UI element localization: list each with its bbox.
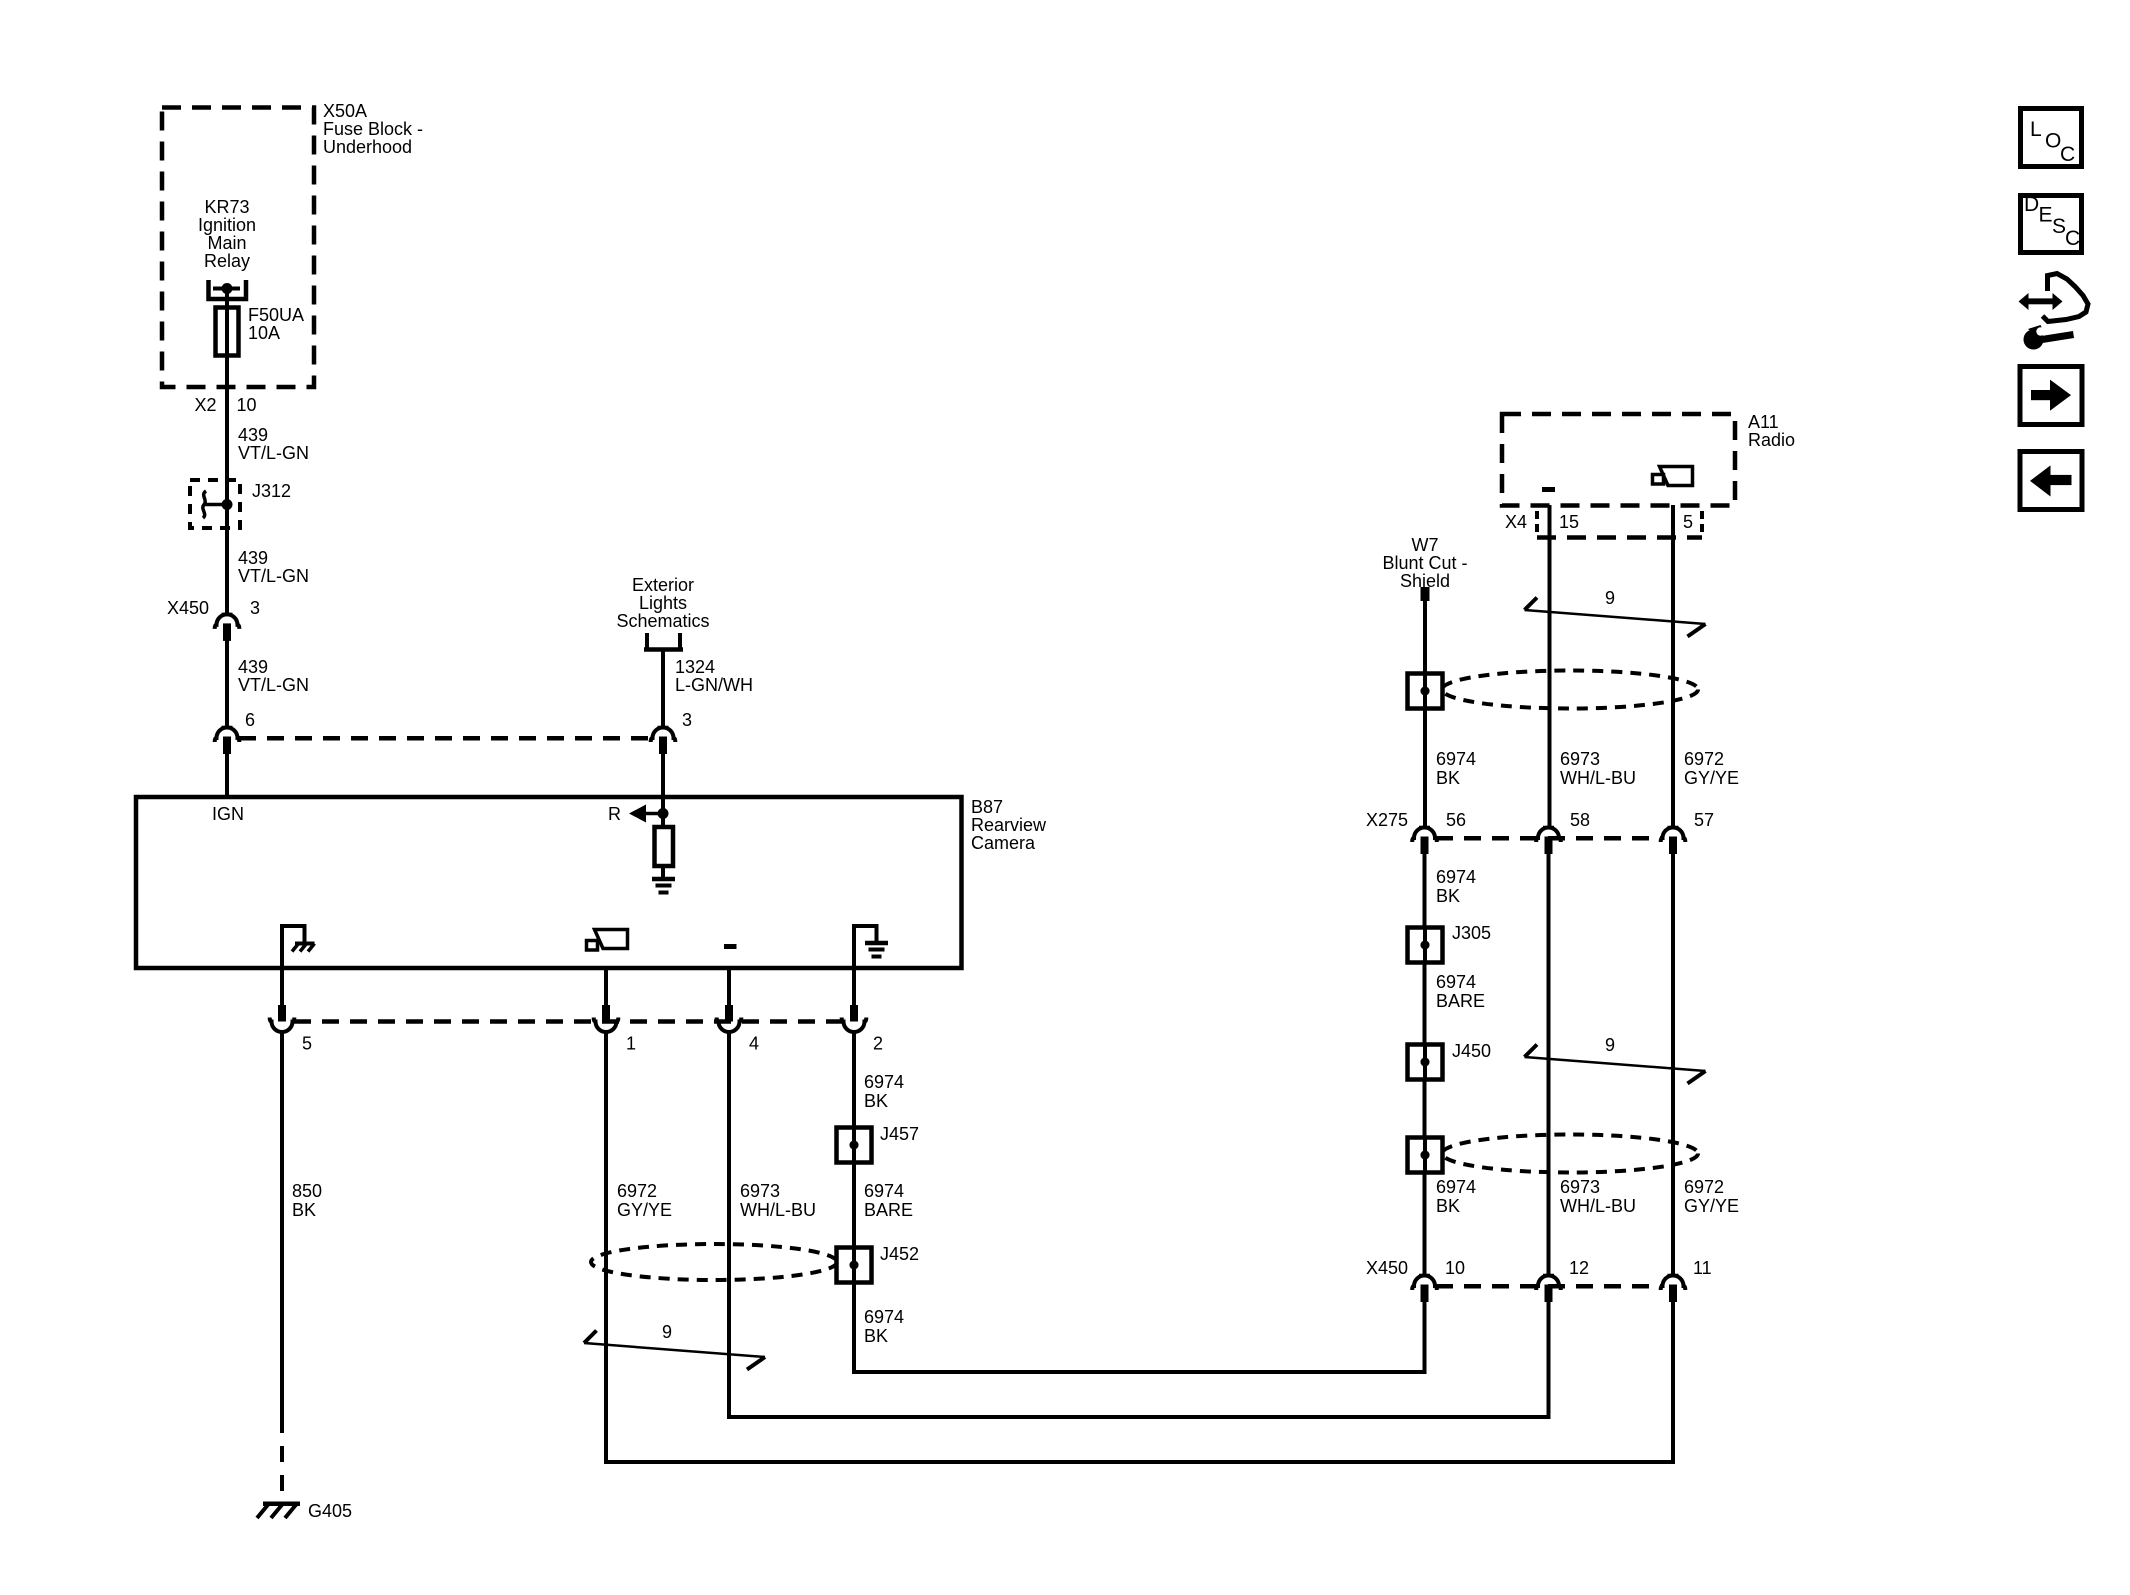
splice J305 <box>1408 923 1492 963</box>
pin number 6 <box>245 710 255 730</box>
svg-text:10: 10 <box>237 395 257 415</box>
twisted pair indicator 9 (bottom) <box>584 1322 765 1370</box>
next (right arrow) button <box>2020 367 2082 425</box>
svg-text:BK: BK <box>1436 1196 1460 1216</box>
camera icon pin 1 <box>587 930 628 951</box>
svg-text:WH/L-BU: WH/L-BU <box>1560 768 1636 788</box>
svg-text:BK: BK <box>1436 768 1460 788</box>
wire labels 6972 GY/YE, 6973 WH/L-BU, 6974 BARE <box>617 1181 913 1220</box>
svg-text:GY/YE: GY/YE <box>1684 1196 1739 1216</box>
svg-text:Fuse Block -: Fuse Block - <box>323 119 423 139</box>
shield ellipse (middle) <box>1442 1135 1698 1173</box>
svg-text:G405: G405 <box>308 1501 352 1521</box>
svg-text:W7: W7 <box>1412 535 1439 555</box>
svg-text:C: C <box>2065 227 2080 250</box>
svg-text:F50UA: F50UA <box>248 305 304 325</box>
svg-text:B87: B87 <box>971 797 1003 817</box>
twisted pair indicator 9 (top right) <box>1525 588 1706 637</box>
svg-text:J452: J452 <box>880 1244 919 1264</box>
connector label X2 pin 10 <box>194 395 256 415</box>
X4 connector row <box>1537 511 1702 538</box>
camera icon inside radio <box>1653 467 1693 486</box>
resistor inside camera <box>655 827 674 878</box>
svg-text:6974: 6974 <box>864 1307 904 1327</box>
svg-text:6974: 6974 <box>864 1181 904 1201</box>
svg-text:GY/YE: GY/YE <box>617 1200 672 1220</box>
connector X450-3 <box>215 614 240 641</box>
labels X275 56 58 57 <box>1366 810 1714 830</box>
svg-text:VT/L-GN: VT/L-GN <box>238 566 309 586</box>
svg-text:BK: BK <box>864 1091 888 1111</box>
wire from relay through fuse to X450 pin 3 <box>225 289 229 614</box>
svg-text:Radio: Radio <box>1748 430 1795 450</box>
wire into camera R <box>661 753 665 799</box>
R input junction with arrow <box>608 799 669 827</box>
svg-text:VT/L-GN: VT/L-GN <box>238 675 309 695</box>
svg-text:5: 5 <box>1683 512 1693 532</box>
svg-text:6974: 6974 <box>1436 867 1476 887</box>
labels X4 15 5 <box>1505 512 1693 532</box>
labels X450 10 12 11 <box>1366 1258 1712 1278</box>
wire 6974 camera pin 2 to X450-10 <box>854 1032 1425 1372</box>
svg-text:X2: X2 <box>194 395 216 415</box>
svg-text:E: E <box>2039 204 2053 227</box>
svg-text:Camera: Camera <box>971 833 1036 853</box>
svg-text:6974: 6974 <box>1436 972 1476 992</box>
wire label 6974 BK (pin 2) <box>864 1072 904 1111</box>
wire label 1324 L-GN/WH <box>675 657 753 695</box>
svg-text:9: 9 <box>1605 588 1615 608</box>
wire labels 6974 BK, 6973 WH/L-BU, 6972 GY/YE (above X450) <box>1436 1177 1739 1216</box>
label KR73 Ignition Main Relay <box>198 197 256 271</box>
connector row below camera <box>270 1005 867 1032</box>
connector camera pin 6 <box>215 728 240 755</box>
svg-text:12: 12 <box>1569 1258 1589 1278</box>
wire labels 6974 BK, 6973 WH/L-BU, 6972 GY/YE (above X275) <box>1436 749 1739 788</box>
svg-text:6973: 6973 <box>740 1181 780 1201</box>
svg-text:6973: 6973 <box>1560 1177 1600 1197</box>
shield ellipse (top) <box>1442 671 1698 709</box>
svg-text:6972: 6972 <box>1684 749 1724 769</box>
shield connection box (middle) <box>1408 1138 1443 1173</box>
ground G405 <box>257 1501 352 1521</box>
svg-text:KR73: KR73 <box>204 197 249 217</box>
svg-text:O: O <box>2045 130 2061 153</box>
twisted pair indicator 9 (middle right) <box>1525 1035 1706 1084</box>
minus symbol pin 4 <box>724 944 737 949</box>
relay KR73 contact symbol <box>209 280 247 299</box>
svg-text:WH/L-BU: WH/L-BU <box>740 1200 816 1220</box>
svg-text:439: 439 <box>238 657 268 677</box>
svg-text:4: 4 <box>749 1034 759 1054</box>
svg-text:10A: 10A <box>248 323 280 343</box>
label W7 Blunt Cut - Shield <box>1382 535 1467 591</box>
svg-text:1: 1 <box>626 1034 636 1054</box>
svg-text:439: 439 <box>238 548 268 568</box>
wire label 850 BK <box>292 1181 322 1220</box>
wire X275-57 down to X450-11 <box>1671 853 1675 1275</box>
wire W7 shield drain to X275-56 <box>1423 601 1427 826</box>
svg-text:A11: A11 <box>1748 412 1779 432</box>
earth ground symbol camera pin 2 <box>854 926 888 968</box>
wire into camera IGN <box>225 753 229 799</box>
connector row X450 (right) <box>1412 1276 1685 1303</box>
pin number 3 <box>682 710 692 730</box>
svg-text:6972: 6972 <box>617 1181 657 1201</box>
fuse block X50A dashed box <box>162 108 314 388</box>
svg-text:3: 3 <box>682 710 692 730</box>
wire radio pin 15 to X275-58 <box>1548 505 1552 826</box>
pin numbers 5 1 4 2 <box>302 1034 883 1054</box>
svg-text:6973: 6973 <box>1560 749 1600 769</box>
svg-text:X275: X275 <box>1366 810 1408 830</box>
svg-text:BARE: BARE <box>1436 991 1485 1011</box>
svg-text:J457: J457 <box>880 1124 919 1144</box>
splice J457 <box>837 1124 920 1163</box>
wire label 439 VT/L-GN <box>238 657 309 695</box>
svg-text:1324: 1324 <box>675 657 715 677</box>
svg-text:GY/YE: GY/YE <box>1684 768 1739 788</box>
wire X275-56 down to X450-10 <box>1423 853 1427 1275</box>
label B87 Rearview Camera <box>971 797 1047 853</box>
DESC button <box>2021 193 2082 253</box>
label X50A Fuse Block - Underhood <box>323 101 423 157</box>
label Exterior Lights Schematics <box>616 575 709 631</box>
svg-text:J312: J312 <box>252 481 291 501</box>
svg-text:Main: Main <box>207 233 246 253</box>
svg-text:L-GN/WH: L-GN/WH <box>675 675 753 695</box>
pin label IGN <box>212 804 244 824</box>
svg-text:X4: X4 <box>1505 512 1527 532</box>
wire 850 BK to G405 <box>280 1032 284 1501</box>
svg-text:15: 15 <box>1559 512 1579 532</box>
svg-text:J450: J450 <box>1452 1041 1491 1061</box>
svg-text:Lights: Lights <box>639 593 687 613</box>
svg-text:BK: BK <box>864 1326 888 1346</box>
wire label 6974 BK (below X275) <box>1436 867 1476 906</box>
svg-text:WH/L-BU: WH/L-BU <box>1560 1196 1636 1216</box>
svg-text:56: 56 <box>1446 810 1466 830</box>
svg-text:S: S <box>2052 215 2066 238</box>
svg-text:57: 57 <box>1694 810 1714 830</box>
svg-text:L: L <box>2030 118 2042 141</box>
svg-text:6974: 6974 <box>1436 1177 1476 1197</box>
wire 6973 camera pin 4 to X450-12 <box>729 1032 1549 1417</box>
svg-text:BK: BK <box>292 1200 316 1220</box>
svg-text:D: D <box>2024 193 2039 216</box>
svg-text:439: 439 <box>238 425 268 445</box>
svg-text:3: 3 <box>250 598 260 618</box>
svg-text:X450: X450 <box>1366 1258 1408 1278</box>
svg-text:9: 9 <box>1605 1035 1615 1055</box>
label A11 Radio <box>1748 412 1795 450</box>
wire label 6974 BK (below J452) <box>864 1307 904 1346</box>
A11 Radio dashed box <box>1502 414 1735 506</box>
svg-text:Ignition: Ignition <box>198 215 256 235</box>
wire 1324 down to camera pin 3 <box>661 650 665 727</box>
connector camera pin 3 <box>651 728 676 755</box>
wire 6972 camera pin 1 to X450-11 <box>606 1032 1673 1462</box>
wire radio pin 5 to X275-57 <box>1671 505 1675 826</box>
minus symbol inside radio <box>1542 487 1555 492</box>
svg-text:10: 10 <box>1445 1258 1465 1278</box>
wire label 439 VT/L-GN <box>238 548 309 586</box>
svg-text:IGN: IGN <box>212 804 244 824</box>
W7 blunt cut cap <box>1421 587 1430 601</box>
splice J312 dashed box <box>190 480 291 528</box>
svg-text:Schematics: Schematics <box>616 611 709 631</box>
splice J452 <box>837 1244 920 1283</box>
svg-text:Blunt Cut -: Blunt Cut - <box>1382 553 1467 573</box>
tools icon <box>2019 274 2089 350</box>
wire label 6974 BARE <box>1436 972 1485 1011</box>
svg-text:Exterior: Exterior <box>632 575 694 595</box>
svg-text:BARE: BARE <box>864 1200 913 1220</box>
B87 Rearview Camera box <box>136 797 962 968</box>
svg-text:850: 850 <box>292 1181 322 1201</box>
svg-text:X50A: X50A <box>323 101 367 121</box>
svg-text:2: 2 <box>873 1034 883 1054</box>
off-page bracket symbol <box>644 633 683 650</box>
wire X275-58 down to X450-12 <box>1547 853 1551 1275</box>
svg-text:R: R <box>608 804 621 824</box>
dashed connector-row line <box>239 736 651 741</box>
connector label X450 pin 3 <box>167 598 260 618</box>
svg-text:Relay: Relay <box>204 251 250 271</box>
wire 439 to camera pin 6 <box>225 640 229 726</box>
svg-text:BK: BK <box>1436 886 1460 906</box>
svg-text:Rearview: Rearview <box>971 815 1047 835</box>
svg-text:C: C <box>2060 143 2075 166</box>
svg-text:6972: 6972 <box>1684 1177 1724 1197</box>
svg-text:VT/L-GN: VT/L-GN <box>238 443 309 463</box>
ground symbol inside camera (R network) <box>652 879 675 893</box>
shield connection box (top) <box>1408 674 1443 709</box>
svg-text:6974: 6974 <box>1436 749 1476 769</box>
shield ellipse at J452 <box>591 1244 837 1280</box>
svg-text:Underhood: Underhood <box>323 137 412 157</box>
svg-text:J305: J305 <box>1452 923 1491 943</box>
chassis ground symbol camera pin 5 <box>282 926 315 968</box>
svg-text:11: 11 <box>1693 1258 1712 1278</box>
LOC button <box>2021 109 2082 167</box>
svg-text:5: 5 <box>302 1034 312 1054</box>
camera output stub wires <box>282 968 854 1006</box>
connector row X275 <box>1412 828 1685 855</box>
splice J450 <box>1408 1041 1492 1080</box>
fuse F50UA 10A <box>216 305 305 356</box>
svg-text:X450: X450 <box>167 598 209 618</box>
svg-text:58: 58 <box>1570 810 1590 830</box>
svg-text:9: 9 <box>662 1322 672 1342</box>
wire label 439 VT/L-GN <box>238 425 309 463</box>
svg-text:6: 6 <box>245 710 255 730</box>
back (left arrow) button <box>2020 452 2082 510</box>
svg-text:6974: 6974 <box>864 1072 904 1092</box>
